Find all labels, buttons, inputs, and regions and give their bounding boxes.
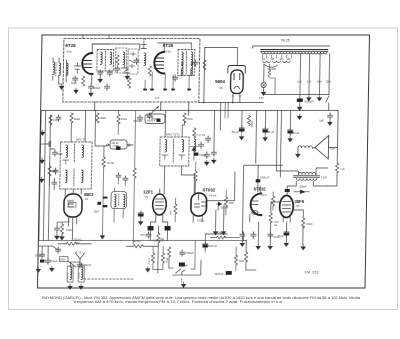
svg-text:470kΩ: 470kΩ xyxy=(215,232,222,235)
FM IF coil T5 xyxy=(194,139,196,152)
resistor network note box DM90 xyxy=(107,144,109,146)
capacitor blob C44 xyxy=(226,271,232,275)
wires right-center xyxy=(242,165,283,270)
grounds left cluster xyxy=(36,267,40,272)
center caps from bus: capacitor C15 xyxy=(137,115,142,121)
electrolytic plates C24 xyxy=(103,197,108,199)
svg-text:30kΩ: 30kΩ xyxy=(100,117,106,120)
SEC_FMBOX xyxy=(52,35,200,102)
5604 anode plates xyxy=(234,74,240,80)
tuning gang C7 xyxy=(121,65,129,73)
wires V5 bottom xyxy=(270,202,303,244)
wire R22 down xyxy=(117,111,119,135)
wire under diode xyxy=(193,151,195,161)
resistor R4 xyxy=(127,78,130,88)
svg-text:40kΩ: 40kΩ xyxy=(74,117,80,121)
resistor R18 vertical xyxy=(167,247,170,257)
SEC_TUBES xyxy=(54,172,313,244)
svg-text:22kΩ: 22kΩ xyxy=(169,210,171,216)
MF1 coil c xyxy=(65,170,67,183)
V4b wires xyxy=(250,186,261,222)
MF1 trimmer a xyxy=(63,160,69,164)
resistor R12 470k xyxy=(269,213,272,223)
left switch cluster wires xyxy=(39,246,53,258)
resistor R24 vertical xyxy=(151,253,154,263)
MF1 core dashes 2 xyxy=(73,169,75,186)
coil can wires down xyxy=(114,188,124,222)
svg-text:V1a: V1a xyxy=(66,50,72,54)
wire MF2 to 12P1 xyxy=(164,166,194,194)
dashed can L2 xyxy=(115,48,126,73)
wires V3 bottom xyxy=(150,222,167,241)
switch S2 xyxy=(52,246,58,250)
svg-text:4MΩ: 4MΩ xyxy=(165,258,167,263)
svg-text:150 kΩ: 150 kΩ xyxy=(132,240,140,243)
svg-text:DM 90: DM 90 xyxy=(112,143,120,145)
svg-text:5604: 5604 xyxy=(215,79,225,84)
resistor R7 xyxy=(70,113,73,123)
svg-text:30pF: 30pF xyxy=(151,117,157,121)
grid stopper arrow xyxy=(300,190,305,194)
resistor R19 xyxy=(244,252,247,262)
note box 2 xyxy=(145,114,165,124)
ground under C22 xyxy=(288,137,292,142)
resistor R28 horizontal xyxy=(216,236,225,239)
left rail wire x47 xyxy=(43,111,45,241)
V4 pins xyxy=(193,172,235,222)
svg-text:V2: V2 xyxy=(85,197,89,201)
selector arc xyxy=(263,64,277,67)
svg-text:B2S: B2S xyxy=(60,259,65,262)
pentode V2 35E3 envelope xyxy=(64,194,82,217)
svg-text:6,3V: 6,3V xyxy=(297,82,302,84)
resistor R26 xyxy=(174,204,177,214)
capacitor C18 xyxy=(206,136,211,142)
triode 6T26 envelope arc xyxy=(154,52,165,74)
wires around R15 xyxy=(58,243,91,245)
right rail resistor R14 xyxy=(335,163,338,173)
svg-text:frequenza AM a 470 kc/s,: frequenza AM a 470 kc/s, media frequenza… xyxy=(74,300,283,304)
ferrite rod coil L7 xyxy=(78,266,84,282)
coil L1b inside box xyxy=(65,60,67,82)
diode D2 xyxy=(190,147,198,151)
resistor R9 xyxy=(183,113,186,123)
pilot lamp LP1 xyxy=(261,82,266,87)
electrolytic C20 50uF xyxy=(239,126,244,133)
ground right xyxy=(317,96,321,101)
electrolytic C22 32uF xyxy=(288,128,293,135)
svg-text:50pF: 50pF xyxy=(71,81,77,85)
svg-text:V4 a-b: V4 a-b xyxy=(209,194,217,198)
capacitor C36 xyxy=(251,232,256,238)
AM-FM switch arrow xyxy=(150,107,159,116)
wire top bus of box xyxy=(92,44,140,50)
wire x87 bus to MF1 xyxy=(84,111,87,143)
svg-text:6T25: 6T25 xyxy=(65,43,76,48)
resistor R32 xyxy=(224,197,227,207)
trimmer marks xyxy=(129,52,136,68)
resistor R8 91k xyxy=(102,157,105,167)
grounds far right-center xyxy=(301,245,305,250)
wire x222 drop xyxy=(219,103,221,131)
heater drop wire 2 xyxy=(308,54,311,95)
output pentode V5 35F6 envelope xyxy=(279,196,293,218)
capacitor C12 xyxy=(56,115,61,121)
ground under 5000pF node xyxy=(297,114,301,119)
electrolytic C34 xyxy=(203,242,208,249)
ground antenna xyxy=(59,84,63,89)
dashed gang line xyxy=(84,278,133,280)
svg-text:5000pF: 5000pF xyxy=(133,119,142,123)
feedthrough dot 4 xyxy=(171,88,175,90)
voice coil wires xyxy=(298,148,315,152)
svg-text:4700pF: 4700pF xyxy=(185,251,194,255)
box C33 xyxy=(179,263,185,267)
resistor R31 xyxy=(194,171,197,181)
svg-text:T2/5: T2/5 xyxy=(321,176,327,180)
resistor R6 on left rail xyxy=(49,115,52,125)
MF1 core dashes xyxy=(73,144,75,162)
svg-text:5000: 5000 xyxy=(57,153,63,156)
svg-text:kΩ: kΩ xyxy=(274,223,277,227)
SEC_MID xyxy=(38,103,302,244)
svg-text:500pF: 500pF xyxy=(299,185,307,189)
resistor R3 in 6T26 cathode xyxy=(148,66,151,76)
long vertical pair to audio xyxy=(276,111,281,178)
resistor R25 vertical xyxy=(161,253,164,263)
svg-text:10kΩ: 10kΩ xyxy=(121,118,127,121)
capacitor C29 xyxy=(45,258,50,264)
V3 internal grids xyxy=(155,199,163,209)
6T26 grid bars xyxy=(154,58,163,69)
T2 wires xyxy=(276,168,328,190)
capacitor C11 below 6T25 xyxy=(105,84,110,90)
svg-text:2kΩ: 2kΩ xyxy=(53,170,58,173)
svg-text:260V: 260V xyxy=(317,82,323,84)
dashed can trimmers xyxy=(128,49,138,74)
right HT rail xyxy=(336,111,339,148)
mains tap winding selector xyxy=(263,55,292,58)
left wire branches xyxy=(40,144,55,190)
TA25 feed wire from frame top xyxy=(253,46,330,48)
switch on 220V line xyxy=(326,96,329,110)
svg-text:47µF: 47µF xyxy=(273,235,279,239)
V5 internals xyxy=(282,202,290,213)
feedthrough dot 5 xyxy=(187,88,191,90)
6T25 grid bars xyxy=(83,61,91,68)
wire mid vertical x205 xyxy=(203,48,206,103)
oscillator coil can xyxy=(111,192,127,209)
svg-text:5000 pF: 5000 pF xyxy=(208,245,217,248)
capacitor C4 xyxy=(98,70,103,76)
5604 pin wires xyxy=(233,94,240,103)
svg-text:5000 pF: 5000 pF xyxy=(215,273,224,276)
rectifier 5604 bulb xyxy=(230,70,243,94)
ground under C21 xyxy=(263,136,267,141)
switch box B25 xyxy=(59,257,68,262)
capacitor C31 xyxy=(146,232,151,238)
wires R24 R25 xyxy=(153,246,163,269)
svg-text:MF2 T3/T2: MF2 T3/T2 xyxy=(166,133,180,137)
resistor R21 xyxy=(96,113,99,123)
lamp wires xyxy=(263,64,265,90)
svg-text:32 µF: 32 µF xyxy=(293,131,300,135)
svg-text:47kΩ: 47kΩ xyxy=(186,117,192,121)
tick wires box to frame xyxy=(83,35,109,39)
SEC_AUDIO xyxy=(276,136,345,191)
horizontal heater bus xyxy=(263,94,329,96)
capacitor C37 xyxy=(268,232,273,238)
left column capacitor C39 xyxy=(52,150,57,156)
HT bus wire y110 xyxy=(41,110,338,112)
SEC_BOTTOM xyxy=(34,165,321,289)
right section: drop to 50uF xyxy=(241,111,243,127)
capacitor C28 xyxy=(40,252,45,258)
capacitor C47 xyxy=(123,176,128,182)
switch block S1a xyxy=(148,226,154,231)
resistor R13 150 xyxy=(301,218,304,228)
6T25 cathode wire xyxy=(91,74,93,84)
resistor R17 vertical xyxy=(157,233,160,243)
output transformer T2 primary loops xyxy=(299,173,316,175)
MF2 core dashes xyxy=(172,139,174,163)
T4 connection wires xyxy=(171,43,191,75)
antenna xyxy=(75,252,84,267)
wires bus to MF2 xyxy=(165,111,184,138)
pin tick marks xyxy=(232,95,241,97)
resistor R27 xyxy=(271,196,274,206)
T2 secondary loops xyxy=(296,178,316,180)
capacitor C42 top xyxy=(141,41,146,49)
fuse wires xyxy=(269,64,276,95)
grounds V4 drain xyxy=(213,230,217,235)
capacitor C30 xyxy=(56,247,61,253)
wire pot down dashed xyxy=(181,279,183,283)
voice coil winding xyxy=(298,146,312,148)
svg-text:1MΩ: 1MΩ xyxy=(228,202,233,205)
HT drop wire 4 xyxy=(328,54,331,95)
V4b cathode loop xyxy=(252,211,258,215)
power tube V4b 6T832 arc xyxy=(250,194,261,216)
HT drop wire 3 xyxy=(318,54,321,95)
secondary bus wire y102 xyxy=(199,102,264,104)
MF2 coil a xyxy=(165,140,167,153)
right rail wires xyxy=(327,148,337,187)
capacitor C3 500pF xyxy=(89,84,94,90)
wire x199 to pot xyxy=(191,241,196,270)
T1 primary coil xyxy=(100,52,102,65)
5604 filament xyxy=(234,86,240,88)
resistor R22 xyxy=(117,114,120,124)
feedthrough dot 2 xyxy=(150,88,154,90)
resistor R2 xyxy=(116,55,119,65)
capacitor C19 xyxy=(211,150,216,156)
left column ground c xyxy=(39,177,43,182)
svg-text:150Ω: 150Ω xyxy=(306,222,312,226)
grounds under coils xyxy=(68,284,72,289)
ground voice coil xyxy=(296,152,300,157)
center network: resistor R16 xyxy=(133,245,143,248)
svg-text:500 pF: 500 pF xyxy=(35,255,43,258)
switch block S1b xyxy=(165,226,171,231)
svg-text:V4 b: V4 b xyxy=(261,193,267,197)
ground under pot xyxy=(181,282,185,287)
svg-text:6,3V: 6,3V xyxy=(259,98,264,100)
capacitor C32 4700pF xyxy=(180,250,185,256)
vertical feed left frame xyxy=(39,111,41,241)
capacitor C2 50pF xyxy=(73,76,78,82)
svg-text:Ω2a: Ω2a xyxy=(330,147,335,151)
wire x162 xyxy=(157,226,160,273)
svg-text:50 µF: 50 µF xyxy=(232,130,239,134)
T4 secondary coil xyxy=(191,52,193,65)
left column ground b xyxy=(40,158,44,163)
V3 pins xyxy=(156,189,164,222)
long vertical x258 xyxy=(255,111,258,164)
svg-text:⟨⟨D: ⟨⟨D xyxy=(341,167,345,171)
svg-text:91 kΩ: 91 kΩ xyxy=(107,161,114,165)
wire bus junction dots xyxy=(203,102,205,104)
ground T1 xyxy=(98,77,102,82)
triode-hexode V3 12P1 envelope xyxy=(152,194,166,215)
schematic frame xyxy=(37,35,369,288)
svg-text:1MΩ: 1MΩ xyxy=(239,260,244,263)
svg-text:6,3V: 6,3V xyxy=(307,82,312,84)
ground under C27 xyxy=(284,241,288,246)
svg-text:6T016: 6T016 xyxy=(197,220,205,223)
wires to feedthroughs xyxy=(145,72,189,88)
pot wires xyxy=(169,257,201,275)
capacitor C16 xyxy=(147,113,152,119)
pentode V4 6TD32 envelope xyxy=(191,193,207,216)
diode D1 xyxy=(216,202,221,206)
T4 core dashes xyxy=(185,51,187,74)
svg-text:CS 5,5: CS 5,5 xyxy=(67,272,69,279)
ground under lamp xyxy=(261,90,265,95)
svg-text:5000 pF: 5000 pF xyxy=(260,177,269,180)
heater drop wire 1 xyxy=(299,54,302,95)
wires coils up xyxy=(70,262,81,266)
T1 secondary coil xyxy=(110,52,112,65)
svg-text:470kΩ: 470kΩ xyxy=(147,258,149,265)
T4 primary coil xyxy=(181,52,183,65)
capacitor C23 xyxy=(54,226,59,232)
left rail wire x52 xyxy=(48,115,50,241)
drop to 32uF b xyxy=(289,111,291,129)
ground under R3 xyxy=(125,74,129,79)
drop to 32uF a xyxy=(264,111,266,128)
V4 internals xyxy=(194,193,205,207)
ground under C48 xyxy=(328,120,332,125)
coupling cap C26 xyxy=(285,189,290,192)
capacitor C41 xyxy=(204,152,209,158)
svg-text:TA 25: TA 25 xyxy=(281,39,290,43)
left column capacitor C38 xyxy=(45,142,55,150)
voltage tap loops row xyxy=(263,61,291,63)
wire from V4 zone down xyxy=(205,205,228,234)
svg-text:V.CAMB: V.CAMB xyxy=(267,68,276,71)
black element in box2 xyxy=(156,119,160,122)
5604 top feed wire xyxy=(204,48,237,66)
svg-text:400Ω: 400Ω xyxy=(66,229,72,232)
T1 core dashes xyxy=(104,51,106,70)
V5 pins xyxy=(283,192,291,222)
ground mid xyxy=(100,234,104,239)
svg-text:500pF: 500pF xyxy=(93,86,101,90)
resistor R1 xyxy=(81,76,84,86)
svg-text:V6: V6 xyxy=(219,86,223,90)
grounds row right-center xyxy=(256,244,260,249)
ground below C3 xyxy=(89,91,93,96)
IF transformer MF1 dashed can xyxy=(60,142,92,189)
svg-text:20 kΩ: 20 kΩ xyxy=(250,121,253,128)
feedthrough dot 3 xyxy=(163,88,167,90)
capacitor C10 xyxy=(193,60,198,66)
capacitor C45 blob xyxy=(194,153,199,156)
capacitor C13 left of MF1 xyxy=(53,168,58,174)
SEC_BUSES xyxy=(39,48,339,241)
AVC node wire xyxy=(95,111,107,147)
T2 core xyxy=(293,176,319,178)
heater pair stubs xyxy=(225,103,228,119)
left column ground a xyxy=(40,130,44,135)
wire x106 down xyxy=(103,146,105,157)
transformer TA25 winding loops xyxy=(262,52,327,54)
IF can T1 dashed xyxy=(97,50,114,72)
resistor R29 vertical xyxy=(234,255,237,265)
MF1 coil a xyxy=(66,145,68,158)
ground under C25 xyxy=(138,220,142,225)
resistor R23 xyxy=(193,128,196,138)
MF1 coil d xyxy=(81,170,83,183)
svg-text:220V: 220V xyxy=(326,82,332,84)
AVC line vertical xyxy=(133,111,135,244)
capacitor C8 xyxy=(134,58,139,64)
wire x216 drop xyxy=(213,111,216,151)
capacitor C9 xyxy=(173,75,178,81)
ground at 6T25 cathode xyxy=(74,88,78,93)
svg-text:8µF: 8µF xyxy=(319,120,324,123)
ground under C20 xyxy=(239,135,243,140)
antenna input coil L1 xyxy=(53,58,59,84)
caps at V3 left C25 xyxy=(138,211,143,218)
electrolytic C27 47uF xyxy=(284,230,289,237)
wire MF1 to V2 grid xyxy=(65,189,81,196)
MF2 coil b xyxy=(182,140,184,153)
capacitor C6 xyxy=(115,66,120,72)
resistor R10 20k xyxy=(247,116,250,126)
svg-text:CS240: CS240 xyxy=(79,272,81,279)
right-center cluster: capacitor C35 blob xyxy=(256,179,261,182)
svg-text:2°4: 2°4 xyxy=(155,96,160,100)
op-amp? no: triode 6T25 envelope arc xyxy=(82,53,93,74)
resistor R15 150k horizontal xyxy=(66,242,76,245)
capacitor C5 xyxy=(107,70,112,76)
left column capacitor C40 xyxy=(52,180,57,186)
svg-text:¼7 17 22: ¼7 17 22 xyxy=(194,133,205,137)
svg-text:V5: V5 xyxy=(296,204,300,208)
svg-text:32 µF: 32 µF xyxy=(268,130,275,134)
ground under R24 xyxy=(146,267,150,272)
ground under C19 xyxy=(212,158,216,163)
svg-text:0,1µF: 0,1µF xyxy=(51,259,58,263)
left column resistor R20 xyxy=(48,166,51,176)
transformer TA25 core xyxy=(261,50,328,52)
svg-text:6T032: 6T032 xyxy=(203,188,216,193)
grounds under V2 xyxy=(55,234,59,239)
V4b grid bars xyxy=(251,201,258,205)
fuse F1 xyxy=(268,70,271,77)
